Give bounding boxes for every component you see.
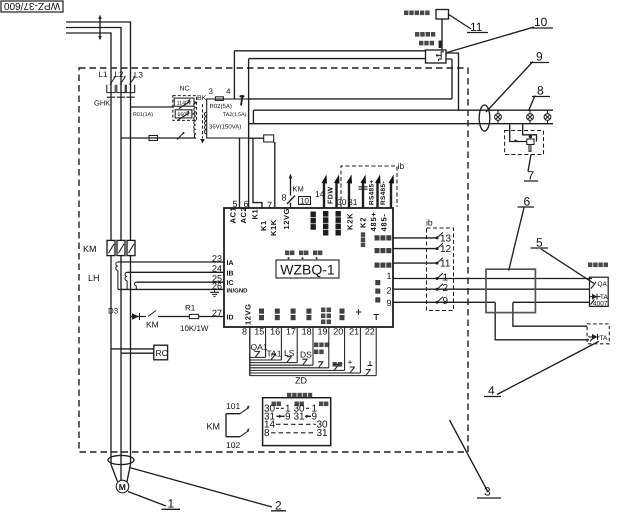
- svg-text:102: 102: [226, 440, 240, 450]
- svg-text:6: 6: [524, 195, 531, 209]
- svg-text:TA2(1.5A): TA2(1.5A): [223, 112, 247, 118]
- svg-text:9: 9: [536, 50, 543, 64]
- svg-text:30: 30: [337, 197, 347, 207]
- svg-text:19: 19: [317, 327, 327, 337]
- svg-text:K1K: K1K: [269, 219, 278, 236]
- svg-text:K1: K1: [259, 220, 268, 231]
- svg-text:10K/1W: 10K/1W: [180, 324, 209, 333]
- svg-text:IN/GND: IN/GND: [227, 287, 249, 294]
- svg-text:1: 1: [386, 271, 391, 281]
- svg-text:ID: ID: [227, 315, 234, 322]
- svg-text:17: 17: [286, 327, 296, 337]
- svg-text:9: 9: [285, 412, 291, 423]
- svg-text:12VG: 12VG: [282, 208, 291, 230]
- svg-text:8: 8: [537, 84, 544, 98]
- svg-text:FDW: FDW: [328, 187, 335, 204]
- svg-text:3: 3: [484, 485, 491, 499]
- svg-text:K2: K2: [358, 217, 367, 228]
- svg-text:24: 24: [212, 264, 222, 274]
- svg-text:13: 13: [440, 233, 452, 244]
- svg-text:2: 2: [443, 283, 449, 294]
- svg-text:11: 11: [470, 20, 483, 34]
- svg-text:LS: LS: [284, 348, 295, 358]
- svg-text:16: 16: [270, 327, 280, 337]
- svg-text:K2K: K2K: [345, 213, 354, 230]
- svg-text:14: 14: [315, 189, 325, 199]
- svg-text:GHK: GHK: [94, 99, 110, 108]
- svg-text:IC: IC: [227, 280, 234, 287]
- svg-text:4007: 4007: [593, 301, 608, 308]
- svg-text:26: 26: [212, 281, 222, 291]
- svg-text:LH: LH: [88, 273, 100, 283]
- svg-text:L2: L2: [115, 70, 124, 79]
- svg-text:9: 9: [443, 296, 449, 307]
- svg-text:KM: KM: [83, 244, 97, 254]
- svg-text:NC: NC: [180, 86, 190, 93]
- svg-text:WPZ-37/600: WPZ-37/600: [3, 0, 60, 11]
- svg-text:4: 4: [226, 87, 231, 96]
- svg-text:M: M: [119, 482, 126, 492]
- svg-text:7: 7: [267, 200, 272, 210]
- svg-text:2: 2: [386, 286, 391, 296]
- svg-text:485+: 485+: [369, 211, 378, 231]
- svg-text:485-: 485-: [379, 213, 388, 231]
- svg-text:1: 1: [443, 272, 449, 283]
- svg-text:8: 8: [242, 327, 247, 337]
- svg-text:10: 10: [534, 15, 548, 29]
- svg-text:31: 31: [317, 428, 329, 439]
- svg-text:R1: R1: [185, 304, 196, 313]
- svg-text:K1: K1: [250, 209, 259, 220]
- svg-text:22: 22: [365, 327, 375, 337]
- svg-text:31: 31: [348, 197, 358, 207]
- svg-text:21: 21: [349, 327, 359, 337]
- svg-text:TA: TA: [600, 335, 608, 342]
- svg-text:2: 2: [275, 499, 282, 513]
- svg-text:QA1: QA1: [251, 342, 268, 352]
- svg-text:R02(5A): R02(5A): [210, 103, 232, 110]
- svg-text:1: 1: [168, 497, 175, 511]
- svg-text:+: +: [348, 357, 353, 367]
- svg-text:ib: ib: [398, 161, 405, 171]
- svg-text:KM: KM: [207, 422, 221, 432]
- svg-text:IB: IB: [227, 270, 234, 277]
- svg-text:23: 23: [212, 253, 222, 263]
- svg-text:31: 31: [294, 412, 306, 423]
- svg-text:660V: 660V: [177, 112, 190, 118]
- svg-text:AC1: AC1: [228, 207, 237, 224]
- svg-text:3: 3: [209, 87, 214, 96]
- svg-text:8: 8: [282, 193, 287, 203]
- svg-text:8: 8: [264, 428, 270, 439]
- svg-text:10: 10: [300, 197, 309, 206]
- svg-text:TA1: TA1: [267, 349, 282, 359]
- svg-text:BK: BK: [197, 95, 207, 102]
- svg-text:DS: DS: [300, 350, 312, 360]
- svg-text:AC2: AC2: [239, 207, 248, 224]
- svg-text:KM: KM: [293, 185, 304, 194]
- svg-text:12VG: 12VG: [244, 303, 253, 325]
- svg-text:ib: ib: [426, 218, 433, 228]
- svg-text:L1: L1: [99, 70, 108, 79]
- svg-text:20: 20: [333, 327, 343, 337]
- svg-text:RS485+: RS485+: [369, 180, 376, 205]
- svg-text:ZD: ZD: [295, 376, 307, 386]
- svg-text:QA: QA: [598, 281, 608, 288]
- svg-text:L3: L3: [134, 71, 143, 80]
- svg-text:12: 12: [440, 244, 452, 255]
- svg-text:11: 11: [440, 259, 451, 270]
- svg-text:27: 27: [212, 308, 222, 318]
- svg-text:15: 15: [254, 327, 264, 337]
- svg-text:KM: KM: [146, 320, 159, 330]
- svg-text:D3: D3: [108, 307, 119, 316]
- svg-text:RS485-: RS485-: [380, 181, 387, 205]
- svg-text:WZBQ-1: WZBQ-1: [280, 262, 335, 278]
- svg-text:R01(1A): R01(1A): [133, 112, 153, 118]
- svg-text:7: 7: [528, 169, 535, 183]
- svg-text:1140V: 1140V: [177, 101, 192, 107]
- svg-text:4: 4: [488, 384, 495, 398]
- svg-text:RC: RC: [156, 348, 168, 358]
- svg-text:36V(150VA): 36V(150VA): [209, 124, 241, 131]
- svg-text:101: 101: [226, 401, 240, 411]
- svg-text:IA: IA: [227, 260, 234, 267]
- svg-text:5: 5: [536, 236, 543, 250]
- svg-text:18: 18: [302, 327, 312, 337]
- svg-text:9: 9: [386, 298, 391, 308]
